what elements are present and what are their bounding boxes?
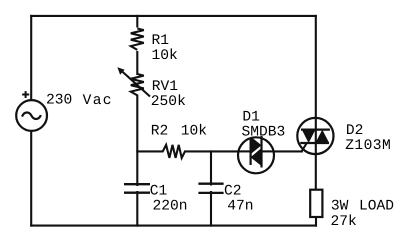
capacitor C2 <box>198 184 223 193</box>
wire D1 right to triac gate <box>274 150 302 152</box>
svg-text:Z103M: Z103M <box>345 138 391 154</box>
RV1 wiper arrow <box>117 67 150 96</box>
svg-text:D1: D1 <box>242 110 260 126</box>
svg-text:C1: C1 <box>150 184 168 200</box>
wire middle rail <box>136 16 138 226</box>
svg-text:250k: 250k <box>151 94 186 110</box>
wire mid horizontal net <box>137 150 238 152</box>
svg-text:Vac: Vac <box>83 93 113 109</box>
diac D1 <box>238 136 274 173</box>
AC source V1 230Vac <box>16 100 47 131</box>
AC source plus sign <box>22 91 29 98</box>
wire left rail <box>30 16 32 226</box>
svg-text:47n: 47n <box>227 198 253 214</box>
svg-text:SMDB3: SMDB3 <box>242 125 286 141</box>
resistor 3W LOAD box <box>310 190 322 217</box>
wire right rail <box>315 16 317 190</box>
svg-text:10k: 10k <box>152 48 179 64</box>
svg-text:10k: 10k <box>181 123 208 139</box>
svg-text:27k: 27k <box>331 214 358 230</box>
svg-text:R2: R2 <box>151 123 169 139</box>
wire bottom rail <box>31 225 316 227</box>
resistor R1 <box>128 28 147 52</box>
svg-text:3W LOAD: 3W LOAD <box>331 199 394 215</box>
wire top rail <box>31 15 316 17</box>
triac D2 <box>297 118 333 154</box>
svg-text:RV1: RV1 <box>152 79 179 95</box>
svg-text:D2: D2 <box>346 123 364 139</box>
svg-text:220n: 220n <box>153 198 188 214</box>
wire right rail below load box <box>315 217 317 226</box>
resistor RV1 (potentiometer) <box>128 74 147 95</box>
wire C2 branch <box>210 151 212 225</box>
capacitor C1 <box>124 184 150 193</box>
svg-text:230: 230 <box>46 93 72 109</box>
resistor R2 <box>163 145 185 158</box>
svg-text:C2: C2 <box>224 183 242 199</box>
svg-text:R1: R1 <box>152 33 170 49</box>
